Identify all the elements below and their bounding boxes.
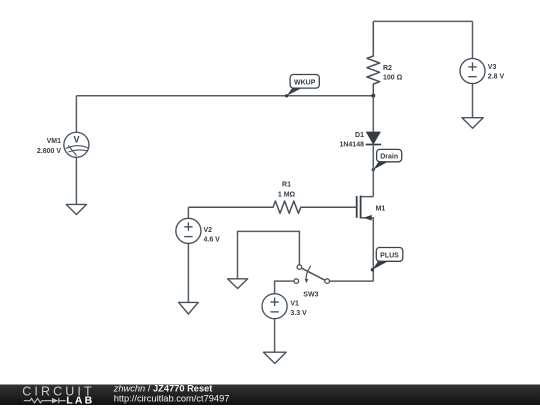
voltage source V2 bbox=[176, 207, 201, 302]
svg-text:http://circuitlab.com/ct79497: http://circuitlab.com/ct79497 bbox=[114, 394, 230, 404]
svg-text:VM1: VM1 bbox=[47, 138, 62, 145]
svg-text:V3: V3 bbox=[488, 64, 497, 71]
voltage source V3 bbox=[460, 21, 485, 117]
resistor R1 bbox=[188, 201, 356, 213]
wire: top net R2 to V3 bbox=[373, 20, 472, 22]
footer bar bbox=[0, 385, 540, 406]
svg-text:SW3: SW3 bbox=[303, 292, 318, 299]
svg-text:R1: R1 bbox=[282, 182, 291, 189]
ground (mid, left of V1) bbox=[228, 279, 248, 289]
wire: R2 node down to D1 bbox=[372, 96, 374, 132]
voltage source V1 bbox=[262, 294, 287, 353]
wire: mid horizontal with riser to SW3 bbox=[238, 231, 300, 278]
svg-text:V2: V2 bbox=[204, 227, 213, 234]
CircuitLab logo bbox=[22, 385, 92, 407]
svg-text:LAB: LAB bbox=[66, 394, 92, 405]
voltmeter VM1 bbox=[64, 96, 89, 205]
flag WKUP bbox=[285, 75, 319, 98]
svg-text:V1: V1 bbox=[290, 301, 299, 308]
svg-text:2.8 V: 2.8 V bbox=[488, 74, 505, 81]
svg-text:WKUP: WKUP bbox=[294, 79, 316, 86]
resistor R2 bbox=[367, 21, 380, 95]
footer text bbox=[113, 383, 230, 403]
svg-text:D1: D1 bbox=[355, 132, 364, 139]
ground (below V1) bbox=[264, 352, 287, 363]
svg-text:Drain: Drain bbox=[380, 154, 398, 161]
diode D1 bbox=[366, 132, 382, 144]
wire: V1 up to SW3 bbox=[275, 281, 294, 294]
ground (below VM1) bbox=[66, 204, 86, 214]
label D1 1N4148 bbox=[339, 132, 364, 149]
flag PLUS bbox=[371, 248, 403, 272]
svg-text:1N4148: 1N4148 bbox=[339, 142, 364, 149]
label V2 4.6 V bbox=[204, 227, 221, 243]
svg-text:1 MΩ: 1 MΩ bbox=[278, 191, 296, 198]
junction at R2 bottom node bbox=[371, 94, 375, 98]
svg-text:M1: M1 bbox=[376, 205, 386, 212]
label VM1 2.800 V bbox=[37, 138, 61, 155]
svg-text:4.6 V: 4.6 V bbox=[204, 236, 221, 243]
wire: D1 to M1 drain bbox=[372, 145, 374, 197]
switch SW3 bbox=[294, 265, 329, 284]
svg-text:V: V bbox=[73, 135, 79, 145]
svg-text:100 Ω: 100 Ω bbox=[383, 74, 403, 81]
svg-text:zhwchn / JZ4770 Reset: zhwchn / JZ4770 Reset bbox=[113, 383, 213, 393]
wire: SW3 to PLUS node bbox=[329, 280, 373, 282]
label R2 100 Ω bbox=[383, 65, 403, 81]
svg-text:3.3 V: 3.3 V bbox=[290, 310, 307, 317]
wire: WKUP net horizontal VM1 to R2 bottom bbox=[76, 95, 373, 97]
svg-text:R2: R2 bbox=[383, 65, 392, 72]
label SW3 bbox=[303, 292, 318, 299]
flag Drain bbox=[372, 149, 402, 171]
transistor M1 (NMOS) bbox=[357, 196, 374, 282]
label V1 3.3 V bbox=[290, 301, 307, 317]
svg-text:PLUS: PLUS bbox=[380, 253, 399, 260]
ground (below V2) bbox=[179, 302, 199, 314]
ground (below V3) bbox=[462, 118, 483, 129]
label R1 1 MΩ bbox=[278, 182, 296, 199]
label M1 bbox=[376, 205, 386, 212]
svg-text:2.800 V: 2.800 V bbox=[37, 148, 61, 155]
label V3 2.8 V bbox=[488, 64, 505, 81]
